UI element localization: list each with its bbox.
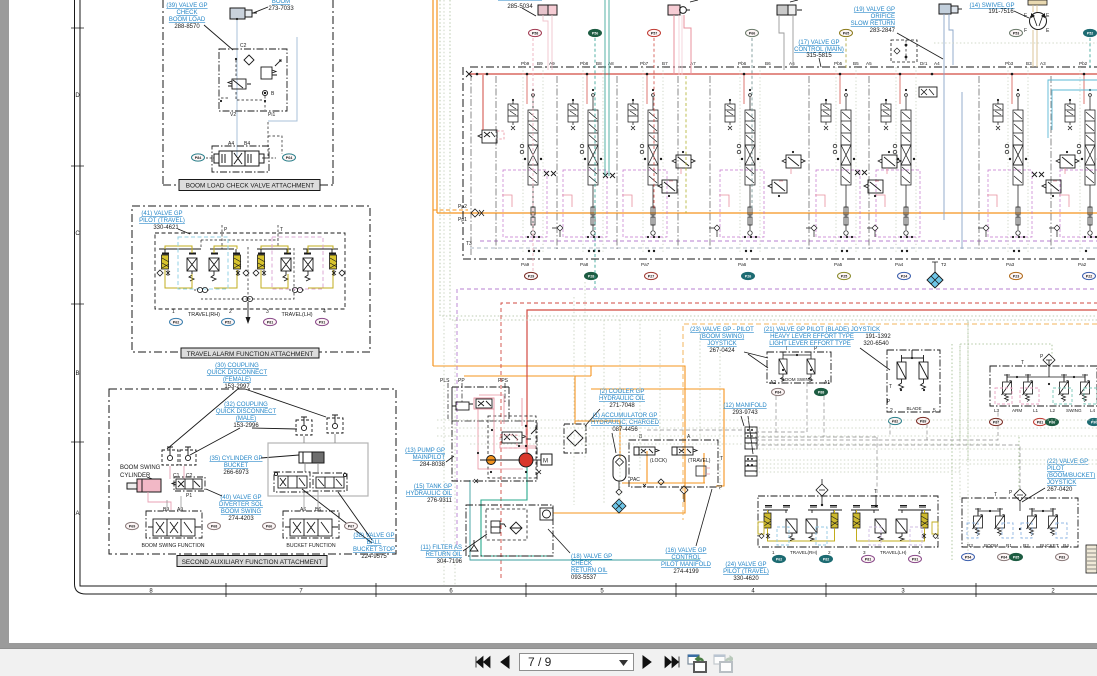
svg-text:P84: P84 [1001, 555, 1007, 559]
svg-text:267-0424: 267-0424 [709, 348, 735, 354]
svg-text:093-5537: 093-5537 [571, 575, 597, 581]
pointer lines female [167, 388, 326, 449]
blade valve L [897, 350, 928, 389]
svg-text:Dr1: Dr1 [920, 61, 928, 66]
strainer [491, 521, 522, 534]
svg-text:T: T [874, 489, 877, 495]
blue box right [919, 87, 937, 97]
svg-text:Pp1: Pp1 [458, 217, 467, 223]
svg-text:BOOM SWING FUNCTION: BOOM SWING FUNCTION [141, 543, 204, 549]
motor circle box [540, 508, 553, 520]
oval P66 [746, 29, 759, 36]
label (11) filter as [421, 545, 463, 565]
svg-text:MAINPILOT: MAINPILOT [413, 455, 446, 461]
Pa labels [521, 262, 1087, 267]
oval P65b [840, 29, 853, 36]
wire olive dashed [685, 76, 687, 213]
shuttle symbols [194, 287, 304, 301]
title box [181, 348, 319, 358]
wire orange pilot supply vertical [433, 0, 437, 366]
grey frame box [268, 443, 368, 496]
cyan dashed sub-box [178, 237, 228, 289]
svg-text:(1) ACCUMULATOR GP: (1) ACCUMULATOR GP [593, 413, 658, 419]
svg-text:(39) VALVE GP: (39) VALVE GP [166, 3, 207, 9]
svg-text:191-1392: 191-1392 [865, 334, 891, 340]
svg-text:(2) COOLER GP: (2) COOLER GP [600, 389, 645, 395]
svg-text:PLS: PLS [440, 378, 450, 384]
blue dashed sub-boxes [777, 527, 789, 545]
title box [179, 180, 320, 191]
port oval P64 [283, 154, 296, 161]
nav first [471, 652, 491, 672]
bottom right corner info box [1086, 545, 1097, 573]
svg-text:304-7196: 304-7196 [437, 559, 463, 565]
svg-text:CHECK: CHECK [571, 561, 592, 567]
svg-text:P83: P83 [1059, 555, 1065, 559]
svg-text:P86: P86 [1049, 420, 1055, 424]
label (1) accumulator [591, 413, 660, 433]
svg-text:P64: P64 [286, 156, 292, 160]
svg-text:A2: A2 [770, 380, 776, 386]
wire grey dashed block bottom [470, 247, 1097, 249]
svg-text:Pb3: Pb3 [1005, 61, 1014, 66]
svg-text:(BOOM/BUCKET): (BOOM/BUCKET) [1047, 473, 1095, 479]
svg-text:B9: B9 [163, 507, 169, 513]
svg-text:P52: P52 [225, 320, 231, 324]
wire pink down [674, 15, 691, 75]
label (16) valve gp control [661, 548, 712, 575]
wire red pump pressure [527, 310, 1097, 455]
attachment outer dashed box [163, 0, 333, 185]
label (12) manifold [723, 403, 767, 416]
svg-text:(21) VALVE GP PILOT (BLADE) JO: (21) VALVE GP PILOT (BLADE) JOYSTICK [764, 327, 880, 333]
wire light blue C2 pipe [236, 19, 238, 156]
check valve diamond [244, 55, 254, 65]
column numbers [149, 589, 1055, 595]
quick disconnect male pair [296, 417, 312, 435]
svg-text:(32) COUPLING: (32) COUPLING [224, 402, 268, 408]
accumulator [613, 455, 626, 481]
svg-text:QUICK DISCONNECT: QUICK DISCONNECT [207, 370, 268, 376]
svg-text:BUCKET: BUCKET [1040, 543, 1059, 548]
svg-text:BLADE: BLADE [906, 406, 921, 411]
swivel supply component [1028, 0, 1047, 5]
orifice component [538, 5, 548, 15]
bucket stop valve 2 [313, 473, 347, 491]
svg-text:(BOOM SWING): (BOOM SWING) [700, 334, 744, 340]
svg-text:Pi1: Pi1 [268, 112, 275, 118]
svg-text:P25: P25 [841, 274, 847, 278]
svg-text:PPS: PPS [498, 378, 509, 384]
side check marks [759, 533, 938, 539]
svg-text:B: B [75, 371, 79, 377]
svg-text:A: A [687, 434, 691, 440]
port ovals [170, 318, 183, 325]
salmon pump wires [478, 395, 536, 469]
svg-text:Pb2: Pb2 [1079, 61, 1088, 66]
svg-text:TRAVEL(LH): TRAVEL(LH) [880, 550, 907, 555]
svg-text:P90: P90 [1091, 420, 1097, 424]
svg-text:Pa6: Pa6 [738, 262, 747, 267]
inner dashed box [155, 233, 345, 309]
svg-text:R1: R1 [1006, 543, 1012, 548]
svg-text:C2: C2 [240, 43, 247, 49]
svg-text:276-9311: 276-9311 [427, 498, 453, 504]
svg-text:(LOCK): (LOCK) [650, 458, 667, 464]
label (32) coupling male [216, 402, 277, 429]
control valve spool [214, 151, 264, 166]
tank / filter dash-dot box [466, 505, 553, 556]
svg-text:Pa9: Pa9 [521, 262, 530, 267]
svg-text:BUCKET FUNCTION: BUCKET FUNCTION [286, 543, 335, 549]
svg-text:P28: P28 [588, 274, 594, 278]
label (35) cylinder gp bucket [209, 456, 262, 476]
svg-text:L1: L1 [1033, 408, 1039, 413]
label (18) valve gp check [571, 554, 612, 581]
svg-text:M: M [543, 459, 548, 465]
cyan diamond [612, 499, 626, 513]
svg-text:B5: B5 [853, 61, 859, 66]
block bottom dash-dot [463, 258, 1097, 260]
label (21) valve gp pilot blade [764, 327, 891, 347]
svg-text:Pa5: Pa5 [834, 262, 843, 267]
oval P56 [589, 29, 602, 36]
svg-text:BOOM SWING: BOOM SWING [221, 509, 262, 515]
svg-text:B8: B8 [596, 61, 602, 66]
label (17) valve gp control main [794, 40, 844, 59]
svg-text:RETURN OIL: RETURN OIL [426, 552, 463, 558]
port oval P84 [192, 154, 205, 161]
svg-text:Pb8: Pb8 [580, 61, 589, 66]
yellow pilot valves [764, 513, 928, 528]
nav prev [498, 652, 512, 672]
label (30) coupling female [207, 363, 268, 390]
label (23) valve gp pilot boom swing [690, 327, 754, 354]
icon next view disabled [713, 654, 733, 673]
label (13) pump gp [405, 448, 446, 468]
svg-text:266-6973: 266-6973 [223, 470, 249, 476]
label (15) tank gp [406, 484, 453, 504]
svg-text:274-4203: 274-4203 [228, 516, 254, 522]
svg-text:P62: P62 [173, 320, 179, 324]
pointer line [253, 7, 268, 13]
svg-text:P81: P81 [1037, 420, 1043, 424]
control valve dash-dot box [212, 146, 269, 172]
svg-text:5: 5 [933, 408, 936, 414]
svg-text:(40) VALVE GP: (40) VALVE GP [220, 495, 261, 501]
teal verticals [605, 0, 609, 176]
svg-text:3: 3 [266, 309, 269, 315]
svg-text:TRAVEL ALARM FUNCTION ATTACHME: TRAVEL ALARM FUNCTION ATTACHMENT [187, 351, 314, 358]
svg-text:BOOM: BOOM [272, 0, 290, 5]
aux valve pairs [658, 151, 695, 197]
svg-text:F: F [1024, 28, 1027, 34]
label (19) valve gp orifice [851, 7, 896, 34]
svg-text:P66: P66 [749, 31, 755, 35]
unit separators dash-dot [471, 74, 1051, 255]
cyan corner lines [1048, 80, 1097, 138]
svg-text:(24) VALVE GP: (24) VALVE GP [725, 562, 766, 568]
salmon hook col9 [497, 131, 504, 139]
label (38) valve gp ball [353, 533, 395, 560]
svg-text:A6: A6 [789, 61, 795, 66]
svg-text:V2: V2 [230, 112, 236, 118]
salmon dashed solenoid box [500, 435, 517, 448]
blue dashed sub-boxes [967, 523, 978, 538]
svg-text:P81: P81 [267, 320, 273, 324]
svg-text:RETURN OIL: RETURN OIL [571, 568, 608, 574]
svg-text:P: P [887, 399, 891, 405]
svg-text:P67: P67 [348, 524, 354, 528]
svg-text:T: T [994, 492, 997, 498]
wire red W-box drop [482, 75, 484, 130]
drain arrow [247, 302, 249, 317]
svg-text:(38) VALVE GP: (38) VALVE GP [353, 533, 394, 539]
svg-text:273-7033: 273-7033 [268, 6, 294, 12]
svg-text:BOOM SWING: BOOM SWING [782, 377, 813, 382]
svg-text:PILOT (TRAVEL): PILOT (TRAVEL) [723, 569, 769, 575]
svg-text:(TRAVEL): (TRAVEL) [688, 458, 711, 464]
dashed pilot links [221, 60, 265, 110]
svg-text:CONTROL: CONTROL [671, 555, 701, 561]
svg-text:T: T [1021, 360, 1024, 366]
svg-text:(MALE): (MALE) [236, 416, 256, 422]
svg-text:4: 4 [323, 309, 326, 315]
svg-text:SLOW RETURN: SLOW RETURN [851, 21, 895, 27]
breather triangle [470, 540, 478, 551]
svg-text:3: 3 [863, 550, 866, 555]
svg-text:BOOM SWING: BOOM SWING [120, 465, 161, 471]
pink wires [148, 466, 184, 510]
wire purple dashed block bottom [480, 240, 1097, 242]
label 285-5034 [498, 0, 542, 1]
boom swing joystick box [767, 352, 831, 383]
Dr1 detail dashed box [891, 40, 917, 62]
svg-text:HEAVY LEVER EFFORT TYPE: HEAVY LEVER EFFORT TYPE [770, 334, 854, 340]
pointer line [204, 25, 233, 50]
pump outer dash-dot box [452, 387, 537, 481]
manifold stacks [745, 427, 757, 476]
svg-text:A5: A5 [866, 61, 872, 66]
oval P53 [1010, 29, 1023, 36]
wire green dotted runs [440, 0, 1097, 320]
wire orange main bus [437, 212, 1097, 214]
wire teal long [470, 480, 700, 560]
group rails [159, 249, 338, 254]
internal dashed routing [201, 225, 294, 299]
main control component [939, 4, 951, 14]
svg-text:HYDRAULIC, CHARGED: HYDRAULIC, CHARGED [591, 420, 660, 426]
block left dash-dot [462, 67, 464, 259]
svg-text:A4: A4 [934, 61, 940, 66]
svg-text:P68: P68 [211, 524, 217, 528]
cooler dash-dot box + diamond [564, 424, 586, 453]
yellow reducing valves [162, 255, 337, 269]
svg-text:Pa2: Pa2 [1078, 262, 1087, 267]
wire teal return [481, 467, 553, 556]
label (14) swivel gp [969, 3, 1014, 15]
svg-text:P58: P58 [532, 31, 538, 35]
W solenoid col9 [478, 130, 497, 143]
svg-text:2: 2 [828, 550, 831, 555]
label (40) valve gp diverter [219, 495, 264, 522]
svg-text:293-9743: 293-9743 [732, 410, 758, 416]
svg-text:B9: B9 [537, 61, 543, 66]
valve detail dash-dot box [219, 49, 287, 111]
purple riser check diamonds [552, 225, 1060, 237]
below-box check valve [680, 486, 688, 502]
svg-text:C2: C2 [186, 473, 193, 479]
svg-text:P84: P84 [775, 390, 781, 394]
svg-text:(15) TANK GP: (15) TANK GP [414, 484, 452, 490]
svg-text:SECOND AUXILIARY FUNCTION ATTA: SECOND AUXILIARY FUNCTION ATTACHMENT [182, 559, 323, 566]
svg-text:191-7516: 191-7516 [988, 9, 1014, 15]
border ticks bottom [226, 583, 976, 597]
svg-text:1: 1 [772, 550, 775, 555]
wire green dotted joystick feeds [952, 320, 1052, 560]
svg-text:P: P [1009, 490, 1013, 496]
pump control valve [502, 428, 537, 443]
x marks [474, 470, 541, 483]
outer dash-dot box [132, 206, 370, 352]
blade joystick box [887, 350, 940, 412]
svg-text:P69: P69 [129, 524, 135, 528]
(16) lock/travel manifold box [629, 440, 718, 487]
svg-text:HYDRAULIC OIL: HYDRAULIC OIL [406, 491, 453, 497]
svg-text:BOOM: BOOM [984, 543, 998, 548]
svg-text:P88: P88 [818, 390, 824, 394]
svg-text:BOOM LOAD CHECK VALVE ATTACHME: BOOM LOAD CHECK VALVE ATTACHMENT [186, 183, 315, 190]
wire red main bus [469, 73, 1097, 75]
svg-text:P91: P91 [912, 557, 918, 561]
oval P52 [1084, 29, 1097, 36]
label (41) VALVE GP PILOT (TRAVEL) [139, 211, 185, 231]
svg-text:224-9575: 224-9575 [361, 554, 387, 560]
numbering [172, 309, 326, 315]
svg-text:PILOT: PILOT [1047, 466, 1065, 472]
svg-text:288-8570: 288-8570 [174, 24, 200, 30]
svg-text:R2: R2 [1023, 543, 1029, 548]
side check diamonds [157, 270, 345, 276]
travel pilot box [758, 496, 938, 547]
svg-text:P57: P57 [651, 31, 657, 35]
svg-text:TRAVEL(LH): TRAVEL(LH) [281, 312, 312, 318]
nav next [640, 652, 654, 672]
svg-text:Pb5: Pb5 [834, 61, 843, 66]
svg-text:P85: P85 [1013, 555, 1019, 559]
T2 drain diamond [927, 272, 943, 288]
wire red dashed [501, 303, 1097, 578]
svg-text:F: F [1024, 13, 1027, 19]
svg-text:T: T [889, 384, 892, 390]
grey dashed manifold links [647, 383, 1020, 494]
label (2) cooler [599, 389, 646, 409]
valve rails [763, 506, 931, 514]
svg-text:JOYSTICK: JOYSTICK [707, 341, 736, 347]
svg-text:A1: A1 [824, 380, 830, 386]
svg-text:320-6540: 320-6540 [863, 341, 889, 347]
svg-text:T2: T2 [941, 262, 947, 267]
svg-text:A6: A6 [300, 507, 306, 513]
svg-text:TRAVEL(RH): TRAVEL(RH) [790, 550, 818, 555]
svg-text:C: C [75, 231, 80, 237]
svg-text:ORIFICE: ORIFICE [871, 14, 895, 20]
svg-text:(30) COUPLING: (30) COUPLING [215, 363, 259, 369]
wire orange dashed attachment boundary [683, 324, 1097, 520]
svg-text:(18) VALVE GP: (18) VALVE GP [571, 554, 612, 560]
svg-text:(35) CYLINDER GP: (35) CYLINDER GP [209, 456, 262, 462]
columns [502, 67, 547, 254]
svg-text:CYLINDER: CYLINDER [120, 473, 151, 479]
svg-text:(11) FILTER AS: (11) FILTER AS [421, 545, 462, 551]
svg-text:330-4621: 330-4621 [153, 225, 179, 231]
svg-text:P26: P26 [745, 274, 751, 278]
svg-text:284-8038: 284-8038 [420, 462, 446, 468]
svg-text:(13) PUMP GP: (13) PUMP GP [405, 448, 445, 454]
border ticks left [71, 28, 84, 442]
nav last [663, 652, 685, 672]
svg-text:267-0420: 267-0420 [1047, 487, 1073, 493]
svg-text:Pa7: Pa7 [641, 262, 650, 267]
boom cylinder component [230, 8, 257, 19]
boom check component [668, 5, 680, 15]
svg-text:2: 2 [890, 408, 893, 414]
svg-text:(16) VALVE GP: (16) VALVE GP [665, 548, 706, 554]
sage dotted manifold fan [755, 449, 1097, 472]
svg-text:A3: A3 [1040, 61, 1046, 66]
svg-text:R3: R3 [967, 543, 973, 548]
svg-text:P52: P52 [1087, 31, 1093, 35]
svg-text:P24: P24 [901, 274, 907, 278]
svg-text:283-2847: 283-2847 [870, 28, 896, 34]
svg-text:4: 4 [918, 550, 921, 555]
svg-text:P: P [224, 227, 228, 233]
svg-text:LIGHT LEVER EFFORT TYPE: LIGHT LEVER EFFORT TYPE [769, 341, 851, 347]
svg-text:L3: L3 [994, 408, 1000, 413]
svg-text:Pp2: Pp2 [458, 204, 467, 210]
svg-text:P56: P56 [592, 31, 598, 35]
svg-text:B: B [271, 91, 275, 97]
svg-text:PILOT MANIFOLD: PILOT MANIFOLD [661, 562, 712, 568]
svg-text:(12) MANIFOLD: (12) MANIFOLD [723, 403, 767, 409]
pointer lines male [190, 428, 297, 455]
title box [177, 556, 327, 567]
block top dashed border [470, 66, 1097, 68]
svg-text:CHECK: CHECK [176, 10, 197, 16]
label (24) valve gp pilot travel [723, 562, 769, 582]
svg-text:D: D [75, 93, 80, 99]
XX plugs [544, 170, 1044, 178]
boom bucket joystick box [962, 498, 1078, 547]
bucket stop valve 1 [274, 472, 310, 492]
svg-text:P82: P82 [823, 557, 829, 561]
wire grey slow return drops [779, 15, 793, 70]
dashed link to B4 [262, 122, 282, 158]
filter inner dashed box [486, 509, 527, 540]
svg-text:Pb6: Pb6 [738, 61, 747, 66]
label (39) VALVE GP CHECK BOOM LOAD [166, 3, 207, 30]
lock solenoid valve [634, 447, 659, 455]
svg-text:Pa4: Pa4 [895, 262, 904, 267]
small check in box [696, 466, 706, 476]
svg-text:274-4199: 274-4199 [673, 569, 699, 575]
svg-text:271-7048: 271-7048 [609, 403, 635, 409]
label BOOM 273-7033 [268, 0, 294, 12]
svg-text:285-5034: 285-5034 [507, 4, 533, 10]
bucket cylinder [299, 452, 312, 463]
svg-text:ARM: ARM [1012, 408, 1022, 413]
svg-text:A9: A9 [177, 507, 183, 513]
